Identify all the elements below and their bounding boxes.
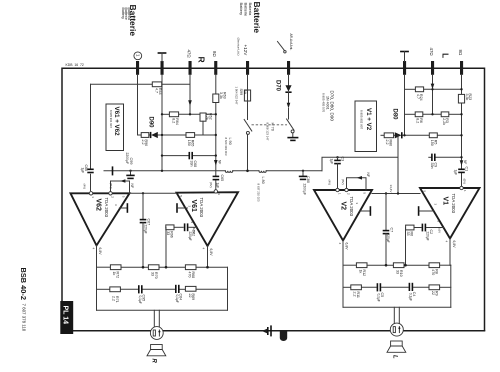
svg-text:(0V): (0V) — [209, 182, 213, 188]
svg-text:(8V): (8V) — [341, 179, 345, 185]
pin circle V1 input 1 — [460, 186, 463, 189]
svg-text:33: 33 — [151, 272, 155, 276]
coil L90 — [225, 171, 233, 173]
svg-text:0,1µF: 0,1µF — [175, 295, 179, 303]
svg-text:C1: C1 — [465, 167, 469, 172]
junction C67 tap — [142, 192, 144, 194]
svg-text:22: 22 — [431, 291, 435, 295]
svg-text:8 637 210 023: 8 637 210 023 — [256, 184, 260, 202]
junction row1 / R96 column — [165, 266, 168, 269]
node symbol circled 1 — [134, 52, 142, 60]
arrow on V2 loop — [357, 176, 362, 180]
resistor R96 33 — [166, 225, 174, 230]
svg-text:33n: 33n — [189, 161, 193, 167]
diode D70 — [288, 75, 290, 86]
arrow on D70 wire — [287, 103, 291, 109]
capacitor C5 0,1uF — [376, 283, 378, 291]
arrow on 47ohm right — [431, 84, 435, 90]
svg-text:V2: V2 — [340, 202, 347, 211]
wire input row y=84 — [91, 83, 153, 85]
PL 14 black box — [60, 301, 73, 334]
svg-text:47Ω: 47Ω — [186, 50, 191, 59]
capacitor C9 33n — [431, 154, 433, 161]
svg-text:220µF: 220µF — [386, 234, 390, 243]
capacitor C64 0,1uF — [175, 285, 177, 293]
svg-text:8 905 902 907: 8 905 902 907 — [360, 110, 364, 130]
wire row y=135 (D90 row) — [138, 134, 142, 136]
svg-text:2200µF: 2200µF — [302, 184, 306, 196]
capacitor C7 220uF column — [385, 194, 387, 231]
rail jog up to NF wire — [322, 157, 398, 171]
svg-text:5A: 5A — [243, 90, 247, 95]
svg-text:150: 150 — [187, 140, 191, 146]
diode D90 — [150, 132, 152, 138]
svg-text:TDA 2003: TDA 2003 — [104, 198, 109, 218]
pin circle V62 pin 2 — [109, 192, 112, 195]
svg-text:0,6V: 0,6V — [438, 227, 442, 233]
junction C9 row / 8ohm column — [460, 156, 462, 158]
junction C68 row left — [161, 154, 163, 156]
V1 pin2 stub with R6 C2 — [405, 227, 407, 229]
svg-text:(4V): (4V) — [82, 184, 86, 190]
svg-text:TDA 2003: TDA 2003 — [451, 194, 456, 214]
capacitor C99 2200uF — [129, 170, 131, 172]
wire 8ohm right column — [461, 75, 463, 95]
svg-text:8,2: 8,2 — [172, 118, 176, 123]
fuse S99 5A — [247, 75, 249, 91]
resistor R64 8,2 — [169, 112, 178, 117]
resistor R6 8,2 — [415, 112, 423, 117]
right output network row 2 — [343, 286, 351, 288]
capacitor C65 1uF — [213, 175, 220, 177]
svg-text:Batteria: Batteria — [127, 8, 131, 20]
svg-text:NF: NF — [130, 184, 134, 189]
resistor R70 33 — [148, 265, 159, 270]
svg-text:470: 470 — [188, 272, 192, 278]
svg-text:4,7: 4,7 — [155, 88, 159, 93]
left network side wires — [96, 267, 98, 310]
junction row1 right / R6 column — [404, 264, 407, 267]
module box V1+V2 — [355, 101, 377, 152]
svg-text:1k: 1k — [358, 270, 362, 274]
svg-text:0,1µF: 0,1µF — [138, 296, 142, 304]
ground symbol (right pin) — [400, 51, 409, 53]
ground symbol H70 — [287, 137, 298, 139]
svg-text:2,2k: 2,2k — [442, 118, 446, 125]
svg-text:6,8V: 6,8V — [98, 248, 102, 256]
junction R5 row / 8ohm column — [460, 134, 462, 136]
capacitor C66 1uF — [87, 168, 93, 170]
svg-text:1µF: 1µF — [454, 170, 458, 176]
wire between V2 and V1 vertices — [372, 193, 420, 195]
svg-text:1µF: 1µF — [329, 159, 333, 165]
svg-text:8 905 961 907: 8 905 961 907 — [109, 110, 113, 128]
V2 feedback loop wire — [347, 178, 367, 190]
capacitor C2 220uF — [421, 224, 423, 232]
svg-text:1µF: 1µF — [215, 183, 219, 189]
V1 output wire — [449, 239, 451, 266]
wire V62 input column — [90, 84, 92, 168]
svg-text:S99: S99 — [239, 89, 243, 96]
frame bottom border middle segment — [163, 330, 390, 332]
right output network row 1 — [343, 264, 356, 266]
svg-text:V62: V62 — [95, 199, 102, 212]
junction D90 row / R column — [215, 134, 217, 136]
svg-text:6,8V: 6,8V — [452, 241, 456, 249]
arrow NF into V61 — [214, 160, 218, 166]
connector pin 3 (47 ohm) — [189, 61, 192, 75]
V2 pin3 stub — [360, 210, 370, 212]
svg-text:R: R — [196, 57, 206, 63]
right speaker feed wires — [393, 307, 395, 323]
left speaker symbol — [151, 345, 163, 350]
svg-text:8Ω: 8Ω — [212, 51, 217, 57]
svg-text:3,3k: 3,3k — [465, 94, 469, 101]
svg-text:33: 33 — [396, 270, 400, 274]
svg-text:1 904 522 547: 1 904 522 547 — [234, 87, 238, 105]
wire row y=114 right — [405, 113, 416, 115]
left speaker connector circle — [150, 327, 163, 340]
junction R5 row / gnd right column — [403, 134, 405, 136]
wire row y=135 right (R80 D80 R5) — [381, 134, 384, 136]
svg-text:BSB 40-2: BSB 40-2 — [19, 268, 28, 300]
junction y114 right row / 47ohm column — [431, 113, 433, 115]
svg-text:2,2: 2,2 — [385, 140, 389, 145]
junction y114 row / 47ohm column — [189, 113, 191, 115]
op-amp V62 TDA2003 — [71, 193, 130, 245]
junction row1 / C67 column — [142, 266, 145, 269]
junction y114 right row / 8ohm column — [460, 113, 462, 115]
wire 47ohm right down — [432, 75, 434, 84]
svg-text:8 620 319 003: 8 620 319 003 — [224, 138, 228, 156]
wire R96 down to row — [165, 227, 167, 267]
arrow on V62 loop — [120, 179, 125, 183]
svg-text:TDA 2003: TDA 2003 — [199, 198, 204, 218]
resistor R65 150 — [186, 133, 195, 138]
svg-text:L 90: L 90 — [228, 138, 232, 145]
wire row y=157 right (C9) — [429, 156, 431, 158]
svg-text:+12V: +12V — [243, 45, 248, 57]
svg-text:TDA 2003: TDA 2003 — [349, 197, 354, 217]
svg-text:C80: C80 — [306, 176, 310, 183]
junction C68 row right — [215, 154, 217, 156]
op-amp V1 TDA2003 — [420, 188, 480, 239]
svg-text:C3: C3 — [341, 157, 345, 162]
svg-text:220µF: 220µF — [188, 232, 192, 241]
capacitor C95 0,1uF — [138, 285, 140, 293]
svg-text:D90: D90 — [147, 117, 153, 129]
svg-text:Battery: Battery — [239, 3, 244, 16]
V62 pin3 stub — [119, 207, 126, 209]
svg-text:0,1µF: 0,1µF — [409, 293, 413, 301]
svg-text:150: 150 — [430, 140, 434, 146]
diode D80 — [395, 132, 402, 138]
coil L80 — [259, 171, 266, 173]
connector pin 1 (battery) — [136, 61, 139, 75]
V1 pin3 stub — [418, 206, 420, 216]
svg-text:3,3k: 3,3k — [219, 92, 223, 99]
svg-text:2200µF: 2200µF — [125, 153, 129, 165]
junction y89 row / 8ohm column — [460, 88, 462, 90]
svg-text:33: 33 — [166, 231, 170, 235]
right speaker symbol — [391, 341, 403, 346]
left output network row 2 — [97, 288, 110, 290]
resistor R71 2,2 — [110, 287, 121, 292]
connector pin 4 (8 ohm) — [214, 61, 217, 75]
svg-text:2,2: 2,2 — [112, 296, 116, 301]
svg-text:NF: NF — [366, 173, 370, 178]
resistor R80 2,2 — [384, 133, 393, 138]
power switch contact — [247, 101, 249, 120]
svg-text:470: 470 — [431, 269, 435, 275]
junction D80 / feedback column — [397, 134, 399, 136]
left speaker feed wires — [153, 310, 155, 327]
junction row1 / V61 output — [206, 266, 209, 269]
wire pin2 down (gnd net) — [161, 75, 163, 171]
junction y114 row / R column — [215, 113, 217, 115]
junction row1 right / C7 column — [385, 264, 388, 267]
V2 output wire — [342, 241, 344, 266]
junction C7 tap — [385, 192, 387, 194]
resistor R72 1k — [110, 265, 121, 270]
svg-text:PL 14: PL 14 — [62, 306, 69, 325]
junction switch/rail — [246, 170, 249, 173]
svg-text:220µF: 220µF — [143, 225, 147, 234]
connector pin 8 (8 ohm left ch) — [460, 61, 463, 75]
svg-text:7 607 378 110: 7 607 378 110 — [22, 304, 27, 332]
resistor R69 22 — [185, 286, 196, 291]
svg-text:(Service-Löt.): (Service-Löt.) — [236, 38, 240, 56]
junction y114 row / gnd column — [161, 113, 163, 115]
svg-text:NF: NF — [463, 160, 467, 164]
V62 feedback loop wire — [111, 181, 130, 193]
resistor R3 2,2k — [441, 112, 449, 117]
svg-text:2,2: 2,2 — [141, 140, 145, 145]
supply rail y=171 — [104, 170, 225, 172]
svg-text:C7: C7 — [389, 228, 393, 233]
svg-text:L 80: L 80 — [261, 177, 265, 184]
junction feedback column / supply wire — [397, 192, 399, 194]
svg-text:0,1µF: 0,1µF — [377, 294, 381, 302]
resistor R63 3,3k — [213, 94, 219, 103]
V62 output wire — [96, 246, 98, 268]
black tab below border — [280, 331, 287, 341]
svg-text:1µF: 1µF — [81, 168, 85, 174]
resistor R5 150 — [429, 133, 437, 138]
V61 output wire — [207, 246, 209, 267]
pin circle V2 input 1 — [336, 188, 339, 191]
svg-text:C65: C65 — [220, 175, 224, 182]
switch contact above AR pin — [278, 42, 285, 51]
junction D90 row / gnd column — [161, 134, 163, 136]
svg-text:AR-Auf.Ant.: AR-Auf.Ant. — [289, 34, 293, 51]
plug connector on bottom border — [262, 329, 267, 333]
svg-text:47Ω: 47Ω — [429, 48, 434, 57]
resistor R6 33 (feedback) — [406, 225, 414, 230]
svg-text:33n: 33n — [430, 163, 434, 169]
ground symbol (pin 2) — [158, 52, 167, 54]
svg-text:H 70: H 70 — [271, 123, 276, 132]
svg-text:8Ω: 8Ω — [458, 50, 463, 56]
capacitor C3 1uF (input V2) — [336, 156, 338, 158]
wire R6 down to row — [405, 228, 407, 266]
V61 pin3 stub — [176, 203, 178, 213]
left output network row 1 — [97, 266, 111, 268]
resistor R68 470 — [185, 265, 196, 270]
capacitor C67 220uF column — [142, 193, 144, 219]
svg-text:V1 + V2: V1 + V2 — [365, 108, 372, 131]
switch contact 2 (AR) — [287, 119, 294, 130]
left network bottom wire — [97, 309, 228, 311]
wire pin1 down — [137, 75, 139, 136]
module box V61+V62 — [106, 104, 124, 151]
connector pin 6 (ground right) — [403, 61, 406, 75]
svg-text:L: L — [440, 53, 450, 58]
svg-text:L: L — [391, 355, 397, 359]
resistor R62 2,2k (vertical) — [200, 113, 206, 121]
svg-text:V61 + V62: V61 + V62 — [113, 107, 120, 137]
svg-text:1k: 1k — [112, 272, 116, 276]
wire right input row y=89 — [404, 75, 406, 136]
svg-text:8 608 123 147: 8 608 123 147 — [265, 123, 269, 141]
svg-text:Batterie: Batterie — [244, 3, 249, 18]
capacitor C1 1uF — [458, 168, 465, 170]
pin circle V61 input 1 — [214, 190, 217, 193]
right network side wires — [342, 265, 344, 307]
wire pin3 down — [189, 75, 191, 115]
svg-text:NF: NF — [218, 160, 222, 164]
resistor R23 3,3k — [458, 94, 464, 103]
right speaker connector circle — [390, 323, 403, 336]
wire row y=114 — [162, 113, 169, 115]
op-amp V2 TDA2003 — [314, 190, 372, 241]
resistor R9 22 — [429, 285, 440, 290]
pin circle V2 pin 2 — [345, 188, 348, 191]
svg-text:220µF: 220µF — [426, 232, 430, 241]
svg-text:33: 33 — [406, 232, 410, 236]
pin circle V62 input 1 — [89, 192, 92, 195]
svg-text:(4V): (4V) — [328, 180, 332, 186]
rail end bar — [112, 166, 114, 175]
arrow on pin3 wire — [188, 100, 192, 106]
svg-text:D80: D80 — [391, 109, 397, 121]
svg-text:D70: D70 — [275, 80, 281, 92]
svg-text:6,8V: 6,8V — [209, 249, 213, 257]
svg-text:KDB 16 72: KDB 16 72 — [66, 63, 84, 67]
connector pin 7 (47 ohm left ch) — [431, 61, 434, 75]
resistor R24 4,7 — [415, 87, 423, 92]
resistor R10 33 — [393, 263, 404, 268]
frame bottom border right segment — [403, 330, 484, 332]
op-amp V61 TDA2003 — [177, 192, 239, 246]
connector pin AR — [287, 61, 290, 75]
svg-text:22: 22 — [188, 294, 192, 298]
svg-text:V1: V1 — [442, 197, 449, 206]
capacitor C62 220uF — [184, 223, 186, 231]
svg-text:8,2: 8,2 — [416, 118, 420, 123]
svg-text:R: R — [150, 359, 156, 364]
wire row y=155.6 (C68) — [162, 155, 188, 157]
capacitor C68 33n — [188, 152, 190, 159]
V61 pin2 stub with R96 C62 — [165, 226, 167, 228]
junction rail/gnd column — [161, 170, 163, 172]
connector pin 2 (ground) — [161, 61, 164, 75]
frame bottom border left segment — [62, 330, 151, 332]
right network bottom wire — [343, 306, 451, 308]
svg-text:2,2k: 2,2k — [205, 113, 209, 120]
svg-text:(0V): (0V) — [462, 179, 466, 185]
svg-text:14,4V: 14,4V — [389, 185, 393, 193]
switch gang dashed link — [252, 124, 288, 126]
svg-text:8 905 405 570: 8 905 405 570 — [321, 93, 325, 113]
svg-text:4,7: 4,7 — [416, 94, 420, 99]
resistor R8 470 — [429, 263, 440, 268]
svg-text:2,2: 2,2 — [353, 292, 357, 297]
resistor R90 2,2 — [141, 133, 149, 138]
arrow NF into V1 — [460, 160, 464, 166]
frame top border — [62, 68, 485, 330]
svg-text:Bateria: Bateria — [248, 3, 253, 16]
wire pin4 down (R input column) — [215, 75, 217, 95]
resistor R11 2,2 — [351, 285, 362, 290]
connector pin 5 (+12V) — [246, 61, 249, 75]
capacitor C80 2200uF — [302, 170, 304, 172]
wire D80 feedback column — [397, 135, 399, 193]
resistor R12 1k — [356, 263, 367, 268]
resistor R44 4,7 — [152, 82, 161, 87]
svg-text:6,8V: 6,8V — [344, 243, 348, 251]
capacitor C4 0,1uF — [408, 283, 410, 291]
wire between V62 and V61 vertices — [130, 192, 177, 194]
